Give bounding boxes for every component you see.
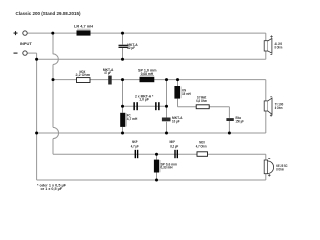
svg-text:10 µF: 10 µF	[172, 120, 180, 124]
svg-text:4,7 Ohm: 4,7 Ohm	[196, 145, 207, 149]
svg-text:47 µF: 47 µF	[104, 71, 111, 75]
svg-text:8 Ohm: 8 Ohm	[275, 106, 283, 110]
svg-text:1,0 µF: 1,0 µF	[139, 98, 149, 102]
svg-text:2,2 Ohm: 2,2 Ohm	[76, 73, 91, 77]
svg-text:0,68 mH: 0,68 mH	[141, 72, 154, 76]
svg-text:8 Ohm: 8 Ohm	[275, 46, 283, 50]
svg-text:82 µF: 82 µF	[127, 46, 135, 50]
svg-text:8 Ohm: 8 Ohm	[276, 167, 284, 171]
svg-text:8,2 µF: 8,2 µF	[170, 144, 179, 148]
svg-text:or 1 x 0,5 µF: or 1 x 0,5 µF	[41, 186, 63, 191]
svg-text:INPUT: INPUT	[20, 42, 33, 46]
svg-text:6,8 Ohm: 6,8 Ohm	[196, 99, 207, 103]
svg-text:4,7 µF: 4,7 µF	[131, 144, 140, 148]
svg-text:4,7 mH: 4,7 mH	[127, 117, 138, 121]
svg-text:150 µF: 150 µF	[236, 120, 245, 124]
svg-text:0,33 mH: 0,33 mH	[161, 166, 173, 170]
svg-text:Classic 200 (Stand 29.08.2015): Classic 200 (Stand 29.08.2015)	[16, 11, 82, 16]
svg-text:LR 4,7 mH: LR 4,7 mH	[74, 25, 93, 29]
svg-text:15 mH: 15 mH	[182, 92, 191, 96]
